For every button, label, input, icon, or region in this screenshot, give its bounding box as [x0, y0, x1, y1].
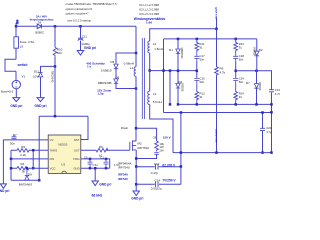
svg-text:GND pri: GND pri	[34, 104, 46, 108]
inductor L2	[148, 41, 150, 53]
svg-text:K3 L2 L3 0.998: K3 L2 L3 0.998	[139, 12, 159, 16]
svg-text:.options noopiter=7: .options noopiter=7	[65, 12, 89, 16]
wire L3 bottom rail4	[150, 105, 173, 153]
svg-text:IRF540: IRF540	[118, 172, 128, 176]
svg-text:.tran 0 0.2 0 startup: .tran 0 0.2 0 startup	[67, 18, 92, 22]
wire TRIG	[81, 159, 110, 168]
wire R7 snubber top from drain	[136, 128, 157, 141]
svg-text:IRF540: IRF540	[118, 177, 128, 181]
svg-text:D1: D1	[169, 48, 173, 52]
junction rail2b d7	[255, 103, 258, 106]
svg-text:D5: D5	[111, 60, 115, 64]
wire tap to rail2	[150, 70, 197, 72]
capacitor C11	[78, 38, 84, 40]
wire snubber bottom	[116, 84, 136, 89]
wire D1 to mid	[177, 54, 179, 83]
svg-text:C14: C14	[155, 178, 161, 182]
wire secondary top rail	[150, 29, 217, 41]
svg-text:50n: 50n	[239, 80, 244, 84]
junction y152 x216	[215, 151, 218, 154]
junction rail1 R9	[215, 28, 218, 31]
junction in+	[15, 25, 18, 28]
junction mid left col	[196, 70, 199, 73]
resistor R5	[17, 149, 29, 153]
wire y116 to RST	[81, 116, 88, 139]
junction mid riser bottom	[169, 103, 172, 106]
junction snubber top	[135, 52, 138, 55]
stub aus.vorh	[216, 19, 218, 29]
svg-text:1 k: 1 k	[87, 65, 92, 69]
wire mid stub right	[236, 71, 272, 90]
switch S1	[5, 59, 16, 71]
inductor L3	[148, 91, 150, 105]
wire L2 to L3	[149, 53, 151, 91]
svg-text:Fuse, 2.5A: Fuse, 2.5A	[20, 40, 35, 44]
wire rail2b	[178, 103, 272, 105]
svg-text:1.5n: 1.5n	[114, 163, 120, 167]
svg-text:BAT54WJ: BAT54WJ	[19, 182, 33, 186]
junction rail2b d4	[177, 103, 180, 106]
wire R10 down	[54, 56, 56, 116]
svg-text:D2: D2	[259, 48, 263, 52]
capacitor C1	[104, 159, 109, 168]
wire R9 column	[216, 29, 218, 153]
junction wire2	[135, 183, 138, 186]
svg-text:500: 500	[57, 51, 62, 55]
wire C13 down	[271, 93, 273, 153]
junction mid d2col	[255, 70, 258, 73]
svg-text:RST: RST	[74, 138, 80, 142]
wire C20 column	[262, 113, 264, 153]
svg-text:GND pri: GND pri	[131, 196, 143, 200]
junction VCC x11	[10, 167, 13, 170]
svg-text:GND pri: GND pri	[99, 182, 111, 186]
resistor R12	[195, 82, 199, 104]
wire x180 dropper	[180, 113, 182, 185]
resistor R4	[17, 166, 29, 170]
wire1 ycap C10	[136, 166, 181, 168]
svg-text:C7: C7	[13, 133, 17, 137]
wire r13 col mid	[235, 61, 237, 78]
svg-text:GND: GND	[73, 167, 79, 171]
wire r11 col mid	[196, 61, 198, 78]
diode D6	[37, 24, 41, 28]
resistor R9	[215, 67, 219, 75]
svg-text:2.2k: 2.2k	[20, 153, 26, 157]
svg-text:CV: CV	[50, 138, 54, 142]
svg-text:50n: 50n	[200, 58, 205, 62]
svg-text:aus.norm: aus.norm	[214, 129, 218, 143]
svg-text:C1: C1	[100, 155, 104, 159]
wire input drop to fuse	[15, 26, 17, 37]
junction zener tap	[54, 65, 57, 68]
svg-text:C6: C6	[84, 155, 88, 159]
svg-text:L5: L5	[20, 45, 24, 49]
wire VCC	[11, 167, 48, 169]
wire DIS	[11, 158, 48, 160]
wire fuse to switch jog	[15, 48, 17, 59]
wire D5 to D8	[115, 69, 117, 79]
capacitor C24	[233, 77, 238, 82]
ground flag M2 source	[133, 191, 139, 196]
svg-text:1.5n: 1.5n	[92, 163, 98, 167]
svg-text:2W: 2W	[159, 149, 164, 153]
ground flag CV	[0, 184, 6, 188]
wire C8 to source	[136, 154, 156, 158]
junction y152 right	[270, 151, 273, 154]
wire rail2	[164, 39, 257, 113]
svg-text:150 V: 150 V	[163, 135, 171, 139]
svg-text:V1: V1	[22, 75, 26, 79]
svg-text:M2: M2	[138, 141, 142, 145]
junction y152 x180	[180, 151, 183, 154]
junction C1 bottom	[105, 167, 108, 170]
junction rail2b right	[270, 103, 273, 106]
svg-text:1,5µ: 1,5µ	[98, 92, 104, 96]
capacitor C7	[12, 135, 17, 140]
diode D4	[176, 83, 180, 88]
svg-text:5.6mH: 5.6mH	[153, 100, 162, 104]
capacitor C13	[269, 90, 274, 93]
junction y116	[54, 115, 57, 118]
svg-text:IRF7540: IRF7540	[118, 166, 130, 170]
transformer core	[142, 38, 144, 119]
junction source snubber	[135, 157, 138, 160]
svg-text:91: 91	[200, 95, 204, 99]
junction rail3 x180	[180, 111, 183, 114]
svg-text:0.68mH: 0.68mH	[124, 62, 135, 66]
junction wire1 x180	[180, 165, 183, 168]
junction rail2b r12	[196, 103, 199, 106]
wire OUT	[81, 149, 130, 151]
svg-text:D9: D9	[28, 172, 32, 176]
junction rail2 r13	[234, 38, 237, 41]
resistor R6	[96, 148, 108, 152]
svg-text:4.7n: 4.7n	[275, 92, 280, 96]
svg-text:NE555: NE555	[58, 142, 68, 146]
ground flag 555	[92, 181, 98, 186]
wire rail to R10	[54, 26, 56, 47]
svg-text:switch: switch	[18, 63, 28, 67]
junction C1 top	[105, 158, 108, 161]
svg-text:50n: 50n	[239, 58, 244, 62]
wire GND	[81, 167, 110, 169]
svg-text:D6: D6	[38, 20, 42, 24]
wire D2 column	[256, 39, 258, 51]
junction C11	[79, 25, 82, 28]
svg-text:1N5819: 1N5819	[101, 69, 112, 73]
svg-text:C10: C10	[154, 162, 160, 166]
svg-text:D7: D7	[246, 81, 250, 85]
svg-text:TRIG: TRIG	[73, 157, 80, 161]
capacitor C8	[154, 153, 159, 155]
diode D7	[254, 84, 258, 89]
junction R10 tap	[54, 25, 57, 28]
resistor R13	[234, 39, 238, 52]
capacitor C16	[194, 77, 199, 82]
wire top input rail	[16, 25, 136, 27]
svg-text:OUT: OUT	[74, 149, 80, 153]
resistor R11	[195, 39, 199, 52]
capacitor C14	[156, 182, 159, 187]
wire rail3	[164, 112, 272, 114]
fuse L5	[14, 37, 19, 48]
wire switch to V1	[15, 71, 17, 80]
svg-text:91: 91	[239, 46, 243, 50]
junction drain snubber	[135, 127, 138, 130]
wire D7 bottom	[256, 88, 258, 104]
capacitor C20	[260, 128, 265, 130]
source V1	[12, 80, 20, 88]
wire rail to C11	[80, 26, 82, 38]
transistor M2	[130, 141, 136, 151]
svg-text:GND pri: GND pri	[84, 46, 96, 50]
wire C11 to ground	[80, 41, 82, 51]
svg-text:IRF7540: IRF7540	[138, 146, 150, 150]
junction link bottom	[32, 167, 35, 170]
svg-text:MBR0520: MBR0520	[180, 48, 183, 60]
junction tap	[148, 69, 151, 72]
svg-text:C8: C8	[153, 135, 157, 139]
junction C6 bottom	[89, 167, 92, 170]
svg-text:D8: D8	[115, 76, 119, 80]
junction D9 top	[26, 167, 29, 170]
diode D1	[176, 49, 180, 54]
svg-text:.options plotwinsize=0: .options plotwinsize=0	[65, 7, 93, 11]
svg-text:R5: R5	[21, 145, 25, 149]
resistor R7	[155, 141, 159, 152]
svg-text:50n: 50n	[10, 142, 15, 146]
diode D9	[25, 168, 29, 180]
wire L1 to drain	[135, 76, 137, 141]
zener D11	[38, 73, 42, 77]
svg-text:91: 91	[200, 46, 204, 50]
junction mid stub left	[177, 70, 180, 73]
ic U3 NE555	[48, 135, 81, 173]
capacitor C18	[233, 52, 238, 61]
svg-text:1:66: 1:66	[146, 21, 152, 25]
wire D2 to mid	[256, 56, 258, 71]
wire CV	[3, 140, 48, 184]
junction rail2 d1col	[177, 38, 180, 41]
svg-text:4.7k: 4.7k	[220, 71, 226, 75]
wire rail corner to L1	[135, 26, 137, 67]
svg-text:THRS: THRS	[50, 149, 58, 153]
svg-text:62,376 V: 62,376 V	[162, 163, 176, 167]
svg-text:GND pri: GND pri	[10, 104, 22, 108]
svg-text:91: 91	[239, 95, 243, 99]
ground V1	[13, 98, 20, 102]
wire left ladder vertical	[10, 150, 12, 180]
ground flag C11	[77, 51, 83, 56]
svg-text:DIS: DIS	[50, 157, 55, 161]
svg-text:3k: 3k	[22, 170, 26, 174]
capacitor C6	[88, 159, 93, 168]
zener D5	[114, 64, 118, 69]
junction DIS x11	[10, 158, 13, 161]
inductor L1	[134, 67, 136, 77]
wire D9 net	[11, 179, 39, 181]
svg-text:0.0022µ: 0.0022µ	[151, 187, 162, 191]
wire2 ycap C14	[136, 183, 181, 185]
svg-text:Bord=9.6: Bord=9.6	[1, 90, 14, 94]
junction rail3 right	[270, 111, 273, 114]
junction mid riser top	[169, 69, 172, 72]
svg-text:Drain: Drain	[121, 126, 129, 130]
wire D2b top	[256, 71, 258, 84]
svg-text:U3: U3	[61, 162, 65, 166]
junction rail2b r14	[234, 103, 237, 106]
svg-text:GND pri: GND pri	[0, 189, 10, 193]
svg-text:K1 L1 L2 0.998: K1 L1 L2 0.998	[139, 3, 159, 7]
svg-text:10V: 10V	[33, 74, 38, 78]
svg-text:L3: L3	[153, 92, 157, 96]
svg-text:aus.vorh: aus.vorh	[214, 7, 218, 20]
resistor R10	[53, 47, 57, 56]
svg-text:R6: R6	[99, 145, 103, 149]
svg-text:.model TBC0640 ako: TBC505B Sf: .model TBC0640 ako: TBC505B Sfpk=7,5	[65, 2, 117, 6]
junction mid right col	[234, 70, 237, 73]
junction snubber bottom	[135, 87, 138, 90]
svg-text:in+: in+	[15, 20, 19, 24]
wire M2 source down	[135, 150, 137, 191]
junction tap x163	[162, 69, 165, 72]
wire THRS	[11, 149, 48, 151]
diode D2	[255, 51, 259, 56]
junction rail2 r11	[196, 38, 199, 41]
wire y116 dropper	[38, 116, 40, 180]
svg-text:4,7µ: 4,7µ	[266, 130, 272, 134]
svg-text:50n: 50n	[200, 80, 205, 84]
svg-text:1N5819: 1N5819	[258, 82, 261, 91]
wire to zener D11	[41, 66, 56, 72]
junction dropper bottom	[38, 179, 41, 182]
svg-text:7V/250 V: 7V/250 V	[162, 179, 176, 183]
svg-text:D11: D11	[34, 69, 40, 73]
ground D11	[37, 98, 44, 102]
wire THRS-VCC link	[32, 150, 34, 168]
resistor R14	[234, 82, 238, 104]
svg-text:C11: C11	[82, 35, 88, 39]
wire snubber top	[116, 53, 136, 64]
svg-text:66 kHz: 66 kHz	[92, 193, 103, 197]
svg-text:MBR330B: MBR330B	[98, 81, 112, 85]
svg-text:1.8mH: 1.8mH	[154, 47, 163, 51]
wire zener to ground	[40, 77, 42, 98]
wire D4 bottom	[177, 88, 179, 104]
junction C20 bottom	[261, 151, 264, 154]
svg-text:L1: L1	[130, 66, 134, 70]
svg-text:L2: L2	[153, 42, 157, 46]
svg-text:BS80C: BS80C	[35, 31, 44, 35]
svg-text:0.47µ: 0.47µ	[151, 171, 159, 175]
wire V1 to ground	[15, 89, 17, 98]
svg-text:Verpolungsschutz: Verpolungsschutz	[29, 18, 54, 22]
svg-text:R4: R4	[21, 162, 25, 166]
svg-text:VCC: VCC	[50, 167, 56, 171]
junction GND stub	[94, 167, 97, 170]
junction wire1	[135, 165, 138, 168]
capacitor C10	[156, 164, 159, 169]
junction C20 top	[261, 111, 264, 114]
capacitor C17	[194, 52, 199, 61]
svg-text:1N5819: 1N5819	[181, 83, 184, 92]
wire out return y152	[173, 152, 272, 154]
junction C6 top	[89, 158, 92, 161]
svg-text:1N5819: 1N5819	[253, 47, 256, 56]
wire y116 net	[39, 115, 88, 117]
junction link top	[32, 149, 35, 152]
wire mid riser	[169, 71, 171, 105]
wire GND stub	[94, 168, 96, 181]
diode D8	[114, 79, 118, 84]
wire D1 column top	[177, 39, 179, 49]
svg-text:TBC0640: TBC0640	[51, 71, 55, 83]
svg-text:K2 L1 L3 0.998: K2 L1 L3 0.998	[139, 8, 159, 12]
